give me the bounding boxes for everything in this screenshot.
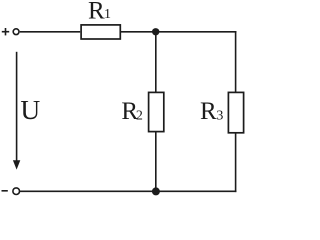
terminal (+) open circle	[13, 29, 19, 35]
svg-text:3: 3	[216, 109, 223, 124]
voltage arrow U (shaft)	[16, 52, 18, 162]
resistor R1 body	[81, 25, 120, 39]
svg-text:1: 1	[104, 7, 111, 22]
voltage arrow U (head)	[13, 160, 20, 169]
resistor R3 body	[228, 92, 243, 132]
svg-text:R: R	[200, 98, 217, 125]
resistor R2 body	[149, 92, 164, 131]
wire: + terminal to resistor R1	[20, 31, 80, 33]
label R1	[88, 0, 111, 24]
label R3	[200, 98, 223, 125]
junction node A (top)	[152, 28, 159, 35]
wire: R2 to node B	[155, 132, 157, 192]
terminal (-) open circle	[13, 188, 20, 195]
wire: bottom, from - terminal to node B and right corner	[20, 190, 236, 192]
svg-text:2: 2	[136, 109, 143, 124]
wire: node A down to R2	[155, 32, 157, 92]
junction node B (bottom)	[152, 187, 160, 195]
wire: R1 to node A	[121, 31, 156, 33]
label R2	[121, 98, 142, 125]
svg-text:U: U	[20, 94, 40, 125]
plus sign (+) polarity marker	[2, 28, 9, 35]
wire: right side, top corner down to R3	[235, 31, 237, 92]
wire: node A to top-right corner	[156, 31, 237, 33]
svg-text:R: R	[88, 0, 105, 24]
minus sign (-) polarity marker	[2, 190, 8, 192]
wire: R3 down to bottom-right corner	[235, 133, 237, 192]
